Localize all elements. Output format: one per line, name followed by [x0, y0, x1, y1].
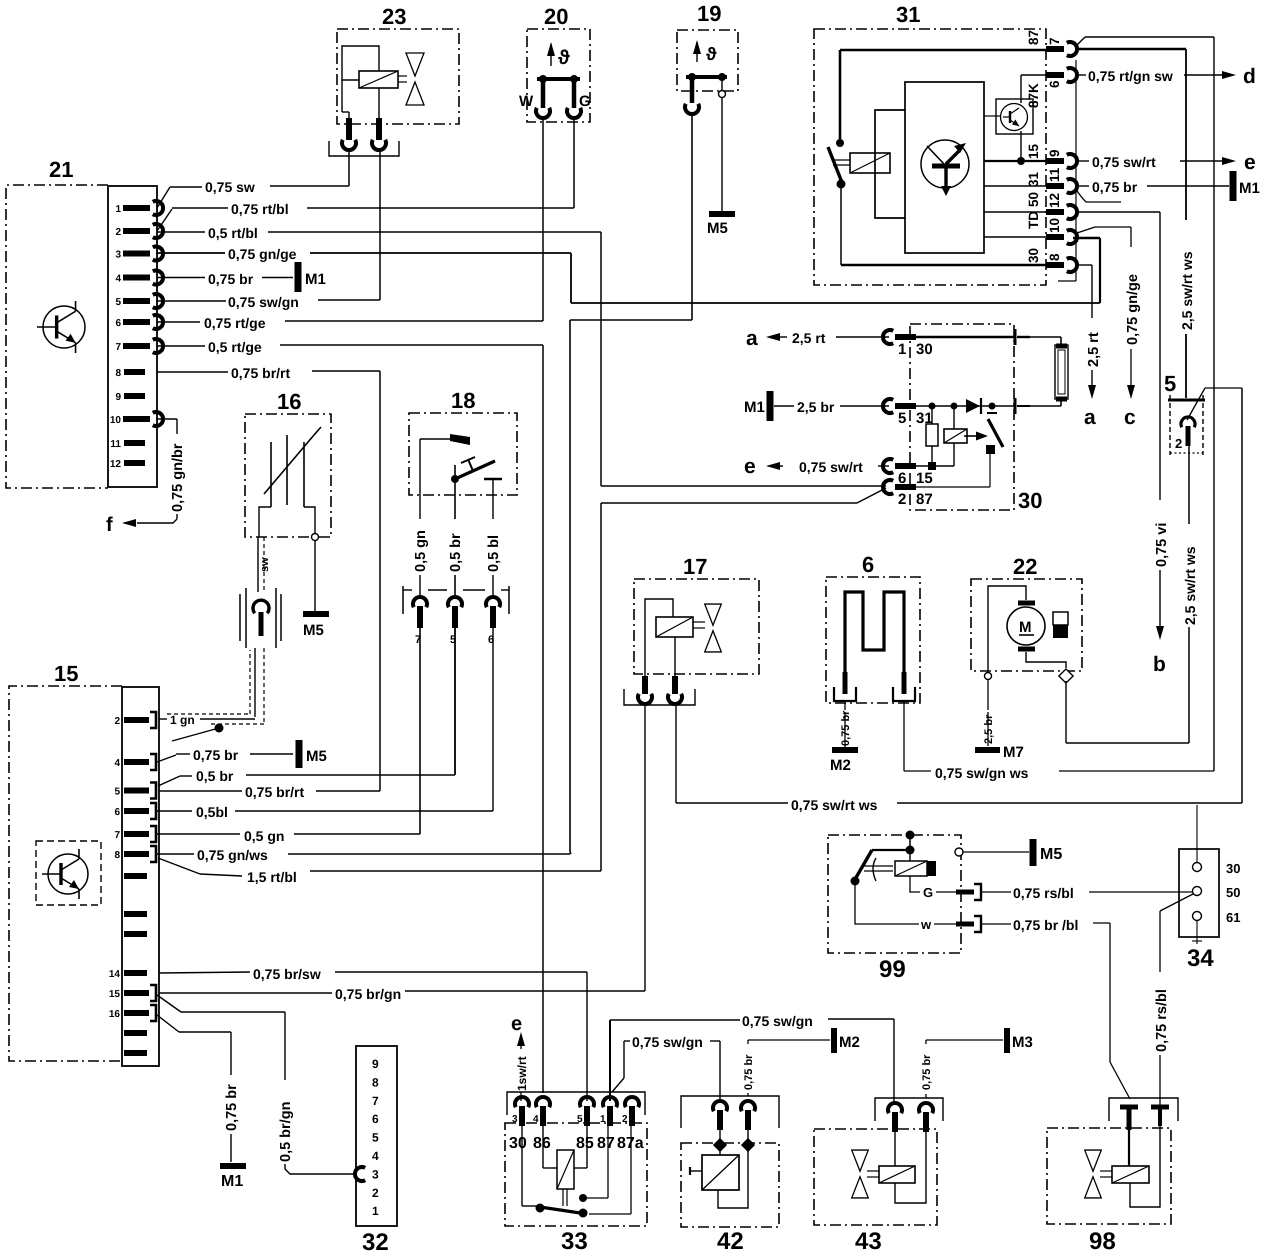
ignition starter switch 31 box: [814, 2, 1046, 285]
pin 2 of 15: [114, 712, 156, 728]
svg-text:b: b: [1153, 653, 1166, 676]
pin 8 terminal 30 of 31: [1026, 248, 1077, 272]
svg-text:1,5 rt/bl: 1,5 rt/bl: [247, 869, 297, 885]
inline connector below 16: [240, 588, 281, 648]
wire 0,75 vi pin12-31 to arrow b: [1078, 212, 1170, 626]
svg-text:M3: M3: [1012, 1034, 1033, 1051]
pin 2 terminal 87 of relay 30: [883, 480, 933, 508]
svg-text:31: 31: [1026, 171, 1041, 187]
pin 9 of 21: [115, 392, 145, 403]
pins of 17: [624, 676, 695, 705]
svg-text:M: M: [1019, 619, 1032, 636]
pin 1 terminal 87 of 33: [600, 1097, 617, 1126]
wire 99 to ground M5: [963, 851, 1029, 853]
relay coil 17: [656, 617, 693, 637]
svg-text:ϑ: ϑ: [558, 47, 570, 69]
wire 42 left pin to valve: [713, 1130, 727, 1155]
fuse element right of relay 30: [1030, 337, 1068, 406]
svg-text:2,5 br: 2,5 br: [983, 714, 995, 744]
wire 0,75 br/gn pin15-15 to 17 left pin: [159, 703, 645, 1002]
transistor symbol in 21: [37, 301, 85, 353]
svg-text:M1: M1: [744, 399, 765, 416]
valve symbol 42: [690, 1155, 739, 1190]
terminal 1 of 32: [372, 1204, 379, 1218]
svg-text:87: 87: [597, 1135, 615, 1152]
svg-text:12: 12: [110, 459, 122, 470]
wire 0,5 rt/bl pin2-21 to relay30 pin 87 and branch: [157, 225, 886, 486]
motor 43: [879, 1132, 915, 1183]
shielded cable 1 gn from connector to pin2 of 15: [159, 648, 264, 727]
terminal 8 of 32: [372, 1075, 379, 1089]
svg-text:e: e: [1244, 151, 1256, 174]
pin 7 of 21: [115, 339, 163, 353]
svg-text:0,5 gn: 0,5 gn: [413, 530, 429, 572]
svg-text:0,75 sw/gn: 0,75 sw/gn: [228, 294, 299, 310]
wire 31 internal 30 rail bottom: [841, 264, 1046, 266]
connector bracket of 43: [875, 1098, 943, 1121]
svg-text:11: 11: [1047, 167, 1062, 182]
pin 4 of 15: [114, 754, 156, 770]
ground M1 at pin4-21: [298, 262, 326, 292]
pin 12 of 21: [110, 459, 145, 470]
fan symbol 17: [693, 604, 721, 652]
pins of 43: [888, 1103, 933, 1132]
svg-text:5: 5: [372, 1131, 379, 1145]
wire 0,75 br pin4-21 to ground M1: [157, 271, 293, 287]
transistor in 15: [36, 841, 101, 905]
pin 2 terminal 87a of 33: [622, 1097, 639, 1126]
wire 0,75 br/rt pin8-21 to pin5 of 15: [157, 365, 380, 800]
svg-text:M5: M5: [707, 220, 728, 237]
pin nc of 15: [124, 931, 147, 937]
suppressor 22: [1053, 612, 1068, 638]
wire 31 internal 87 rail top: [840, 50, 1046, 139]
wire 0,75 br/bl 99 w to 98 left pin: [981, 917, 1130, 1099]
relay 30 switch: [916, 413, 1003, 487]
wire 43 right pin loop: [895, 1132, 926, 1203]
inner unit rectangle 31: [905, 82, 984, 253]
svg-text:a: a: [746, 327, 758, 350]
ground M1 bottom left: [220, 1166, 246, 1190]
svg-text:43: 43: [855, 1228, 882, 1254]
svg-text:5: 5: [114, 787, 120, 798]
svg-text:0,75 br: 0,75 br: [208, 271, 254, 287]
svg-text:0,5 gn: 0,5 gn: [244, 828, 284, 844]
svg-text:15: 15: [1026, 143, 1041, 159]
svg-text:5: 5: [1164, 371, 1176, 396]
small transistor box 31: [984, 99, 1033, 134]
terminal 9 of 32: [372, 1057, 379, 1071]
svg-text:0,5 br: 0,5 br: [448, 533, 464, 572]
switch 18 box: [409, 388, 517, 495]
svg-text:0,75 rt/ge: 0,75 rt/ge: [204, 315, 266, 331]
starter connector 34 box: [1179, 849, 1219, 972]
svg-text:8: 8: [114, 850, 120, 861]
arrow a down: [1084, 385, 1096, 429]
pin strip 15: [122, 687, 159, 1066]
svg-text:30: 30: [1026, 248, 1041, 263]
svg-text:87: 87: [1026, 30, 1041, 45]
wire 0,75 rt/ge pin6-21 to W of 20: [157, 118, 543, 331]
motor 22 box: [971, 554, 1082, 671]
arrow d: [1222, 65, 1256, 88]
wire 0,75 sw/rt ws 17 right pin to box5 contact: [676, 703, 1242, 813]
wire 31 internal row 15: [984, 160, 1046, 162]
svg-text:4: 4: [533, 1114, 539, 1125]
wire 0,75 gn/ge pin3-21 to TD pin10-31: [157, 238, 1100, 303]
fan symbol 23: [398, 53, 424, 105]
wire 0,75 sw/gn ws 6 right pin to pin7-31 thin wire: [904, 701, 1214, 781]
pin 15 of 15: [109, 985, 156, 1001]
svg-text:8: 8: [115, 368, 121, 379]
wire 0,75 br 6 left pin to ground M2: [840, 701, 852, 747]
svg-text:0,5 br: 0,5 br: [196, 768, 234, 784]
svg-text:f: f: [106, 514, 113, 536]
wire 31 internal row 50: [984, 211, 1046, 213]
svg-text:7: 7: [1047, 37, 1062, 45]
wire e 1 sw/rt into pin3 of 33: [511, 1013, 529, 1101]
ground M1 right of 31: [1233, 171, 1260, 201]
pins of 6: [834, 672, 915, 701]
terminal 5 of 32: [372, 1131, 379, 1145]
svg-text:23: 23: [382, 4, 406, 29]
svg-text:0,75 br: 0,75 br: [224, 1084, 240, 1131]
wire 0,5 gn connector18 pin7 to pin7-15: [157, 628, 420, 844]
svg-text:16: 16: [277, 389, 301, 414]
wire w terminal 99: [855, 881, 981, 932]
svg-text:11: 11: [110, 439, 121, 450]
svg-text:0,75 rs/bl: 0,75 rs/bl: [1154, 989, 1170, 1052]
svg-text:30: 30: [1226, 861, 1240, 876]
arrow b: [1153, 626, 1166, 676]
pin 1 of 21: [115, 201, 163, 215]
svg-text:15: 15: [109, 989, 121, 1000]
wire 2,5 br 22 to ground M7: [983, 680, 995, 746]
pin 7 terminal 87 of 31: [1026, 30, 1077, 56]
svg-text:2,5 rt: 2,5 rt: [792, 330, 826, 346]
pin 11 terminal 31 of 31: [1026, 167, 1077, 193]
relay 33 switch: [522, 1126, 588, 1218]
pin 8 of 21: [115, 368, 145, 379]
pin nc of 15: [124, 911, 147, 917]
pressure symbol 99: [864, 858, 893, 881]
wire 2,5 rt pin8-31 to arrow a: [1078, 265, 1102, 385]
relay 17 box: [634, 554, 759, 674]
svg-text:ϑ: ϑ: [706, 44, 717, 64]
pin 10 of 21: [110, 412, 163, 426]
svg-text:0,75 br/sw: 0,75 br/sw: [253, 966, 321, 982]
svg-text:G: G: [923, 885, 933, 900]
symbol arrow and theta 20: [547, 42, 570, 69]
svg-text:30: 30: [916, 341, 933, 358]
connector pins under 23: [329, 118, 399, 156]
relay 23 auxiliary fan relay box: [337, 4, 459, 124]
svg-text:sw: sw: [259, 557, 271, 572]
wire 0,75 br 43 right pin to ground M3: [921, 1040, 1003, 1098]
svg-text:99: 99: [879, 956, 906, 983]
svg-text:0,75 gn/ge: 0,75 gn/ge: [1125, 274, 1141, 345]
ground M5 below 16: [303, 614, 329, 639]
fan symbol 43: [852, 1150, 879, 1198]
armature link 31: [833, 160, 850, 165]
svg-text:2,5 sw/rt ws: 2,5 sw/rt ws: [1179, 251, 1195, 330]
wire 0,5 rt/ge pin7-21 to pin4 of relay 33: [157, 339, 543, 1093]
terminal 61 of 34: [1192, 910, 1240, 944]
pin 6 terminal 87K of 31: [1026, 68, 1077, 108]
svg-text:30: 30: [1018, 488, 1042, 513]
svg-text:22: 22: [1013, 554, 1037, 579]
svg-text:W: W: [519, 93, 534, 110]
svg-text:0,75 sw/rt: 0,75 sw/rt: [799, 459, 863, 475]
terminal diamond 22 right: [1059, 669, 1073, 683]
terminal labels of 33: [509, 1135, 644, 1152]
svg-text:0,75 gn/br: 0,75 gn/br: [170, 443, 186, 512]
svg-text:0,75 sw/gn: 0,75 sw/gn: [632, 1034, 703, 1050]
arrow c: [1124, 385, 1136, 429]
wire 0,75 sw/rt pin9-31 to arrow e: [1078, 154, 1222, 170]
relay 30 box: [910, 324, 1042, 513]
svg-text:M1: M1: [1239, 180, 1260, 197]
svg-text:50: 50: [1026, 192, 1041, 207]
svg-text:2: 2: [898, 491, 906, 508]
pin 9 terminal 15 of 31: [1026, 143, 1077, 168]
shielded cable sw from 16 to connector: [258, 537, 271, 592]
svg-text:18: 18: [451, 388, 475, 413]
wire 0,75 br 42 right pin to ground M2: [743, 1040, 830, 1096]
svg-text:0,5bl: 0,5bl: [196, 804, 228, 820]
svg-text:2: 2: [115, 227, 121, 238]
wire 0,75 gn/br pin10-21 to arrow f: [137, 419, 186, 523]
wire 0,75 sw/gn 33 pin87 to 43: [610, 1013, 894, 1101]
wire 0,75 sw/gn 33 pin87 to 42: [612, 1034, 720, 1101]
terminal 4 of 32: [372, 1149, 379, 1163]
svg-text:0,75 br: 0,75 br: [1092, 179, 1138, 195]
svg-text:30: 30: [509, 1135, 527, 1152]
arrow f: [106, 514, 136, 536]
svg-text:61: 61: [1226, 910, 1240, 925]
pin nc of 15: [124, 873, 147, 879]
connector bracket of 42: [681, 1096, 779, 1128]
pin 4 terminal 86 of 33: [533, 1097, 550, 1126]
svg-text:1: 1: [898, 341, 906, 358]
wire e 0,75 sw/rt to relay30 pin 15: [744, 455, 889, 478]
relay coil 31: [850, 153, 890, 173]
svg-text:2,5 br: 2,5 br: [797, 399, 835, 415]
fan symbol 98: [1085, 1150, 1112, 1198]
svg-text:M5: M5: [303, 622, 324, 639]
shield ground junction: [172, 724, 224, 742]
ground M2 below 6: [830, 750, 858, 774]
pin 2 of box 5: [1175, 417, 1195, 451]
pin 3 terminal 30 of 33: [512, 1097, 529, 1126]
wire 22 right terminal down: [1065, 681, 1067, 743]
svg-text:0,75 br: 0,75 br: [921, 1054, 933, 1090]
wire 0,75 rs/bl 99 G to pin50 of 34: [981, 885, 1193, 901]
svg-text:1sw/rt: 1sw/rt: [515, 1056, 529, 1091]
svg-text:0,75 sw: 0,75 sw: [205, 179, 255, 195]
wire 0,75 sw from 23 to pin1 of 21: [157, 149, 349, 208]
svg-text:17: 17: [683, 554, 707, 579]
svg-text:1 gn: 1 gn: [170, 713, 195, 727]
connector strip 32: [356, 1046, 397, 1254]
pin 5 of 21: [115, 294, 163, 308]
svg-text:9: 9: [372, 1057, 379, 1071]
pin 14 of 15: [109, 969, 147, 980]
control unit 21 box: [6, 157, 108, 488]
thermo switch 20: [527, 4, 590, 122]
relay 33 contact 87 wire: [579, 1126, 608, 1202]
wire 0,75 br/sw pin14-15 to pin5 of 33: [159, 966, 587, 1101]
wire 22 motor plus from terminal: [988, 586, 1026, 672]
pressure switch 99 box: [828, 835, 961, 983]
wire 0,5 bl connector18 pin6 to pin6-15: [157, 628, 493, 820]
pin 5 terminal 31 of relay 30: [883, 399, 933, 427]
wire 16 to ground M5: [314, 541, 316, 611]
relay 33 armature link: [563, 1189, 567, 1206]
terminal 30 of 34: [1193, 805, 1241, 876]
svg-text:3: 3: [115, 250, 121, 261]
wire a 2,5 rt to relay30 pin 30: [746, 327, 889, 350]
wire 31 internal 87K from pin6 to small transistor: [1017, 75, 1046, 165]
svg-text:c: c: [1124, 406, 1136, 429]
svg-text:50: 50: [1226, 885, 1240, 900]
pins of 42: [713, 1101, 755, 1130]
svg-text:9: 9: [1047, 149, 1062, 157]
heater element 6 box: [826, 552, 920, 703]
svg-text:TD: TD: [1026, 211, 1041, 229]
terminal 3 of 32: [372, 1167, 379, 1181]
svg-text:0,75 sw/gn ws: 0,75 sw/gn ws: [935, 765, 1029, 781]
svg-text:M5: M5: [306, 748, 327, 765]
terminal 7 of 32: [372, 1094, 379, 1108]
auxiliary fan 43 box: [814, 1129, 937, 1254]
svg-text:0,75 sw/gn: 0,75 sw/gn: [742, 1013, 813, 1029]
connector bracket of 33: [507, 1092, 645, 1115]
relay 30 diode: [966, 398, 981, 414]
svg-text:2: 2: [372, 1186, 379, 1200]
svg-text:7: 7: [372, 1094, 379, 1108]
ground M3 right of 43: [1007, 1028, 1033, 1053]
solenoid valve 42 box: [681, 1143, 779, 1254]
terminal 6 of 32: [372, 1112, 379, 1126]
relay 30 internal rail 31: [916, 403, 1014, 410]
svg-text:M7: M7: [1003, 744, 1024, 761]
svg-text:15: 15: [916, 470, 933, 487]
pin nc of 15: [124, 1050, 147, 1056]
svg-text:w: w: [920, 917, 932, 932]
wire 0,75 gn/ws net from 19 left pin down to pin8 of 15: [157, 114, 692, 863]
svg-text:0,75 sw/rt: 0,75 sw/rt: [1092, 154, 1156, 170]
svg-text:1: 1: [600, 1114, 606, 1125]
pin 8 of 15: [114, 846, 156, 862]
pin 10 terminal TD of 31: [1026, 211, 1077, 244]
svg-text:8: 8: [1047, 253, 1062, 261]
svg-text:2: 2: [114, 716, 120, 727]
svg-text:0,5 rt/ge: 0,5 rt/ge: [208, 339, 262, 355]
svg-text:6: 6: [115, 318, 121, 329]
motor 98: [1112, 1130, 1149, 1183]
auxiliary fan 98 box: [1047, 1128, 1171, 1254]
left bracket of inner unit 31: [875, 110, 905, 218]
svg-text:G: G: [579, 93, 591, 110]
switch contacts 19: [685, 73, 727, 114]
relay 30 internal rail 15: [916, 465, 954, 467]
ignition switch lever 31: [828, 139, 846, 189]
svg-text:e: e: [511, 1013, 522, 1035]
relay coil 23: [359, 71, 398, 88]
pin 11 of 21: [110, 439, 145, 450]
pin 16 of 15: [109, 1005, 156, 1021]
switch symbol 18: [420, 434, 502, 495]
wire from 19 right pin to ground M5: [721, 98, 723, 212]
ground M5 right of 99: [1033, 839, 1062, 866]
svg-text:10: 10: [1047, 218, 1062, 233]
relay coil 33: [543, 1126, 587, 1189]
svg-text:4: 4: [115, 274, 121, 285]
pin 4 of 21: [115, 271, 163, 285]
svg-text:31: 31: [896, 2, 920, 27]
wire 31 internal row 31: [984, 185, 1046, 187]
svg-text:7: 7: [114, 830, 120, 841]
wire thin from pin7-31 to 0,75 sw/gn ws rail: [1077, 37, 1214, 771]
pin 1 terminal 30 of relay 30: [883, 330, 933, 358]
svg-text:0,75 rs/bl: 0,75 rs/bl: [1013, 885, 1074, 901]
relay 30 resistor: [926, 406, 938, 470]
svg-text:6: 6: [114, 807, 120, 818]
svg-text:1: 1: [372, 1204, 379, 1218]
wires internal 17: [645, 599, 675, 676]
wire 0,5 br/gn pin15-15 to pin3 of 32: [157, 995, 355, 1174]
heating element 6: [845, 592, 904, 675]
wire box5 top contact to 0,75 sw/rt ws rail: [1241, 388, 1243, 803]
pins of 98: [1120, 1107, 1169, 1130]
relay 33 box: [505, 1123, 647, 1254]
svg-text:0,75 gn/ge: 0,75 gn/ge: [228, 246, 297, 262]
terminal circle 99 top right: [955, 848, 963, 856]
pin 6 terminal 15 of relay 30: [883, 459, 933, 487]
svg-text:10: 10: [110, 415, 122, 426]
svg-text:20: 20: [544, 4, 568, 29]
svg-text:5: 5: [115, 297, 121, 308]
wire 22 motor minus to terminal: [1026, 652, 1066, 668]
symbol arrow and theta 19: [693, 40, 717, 64]
ground M5 below 19: [707, 214, 735, 237]
svg-text:M2: M2: [839, 1034, 860, 1051]
ground M2 right of 42: [834, 1028, 860, 1053]
svg-text:42: 42: [717, 1228, 744, 1254]
switch contacts 20: [519, 75, 591, 118]
svg-text:d: d: [1243, 65, 1256, 88]
svg-text:2,5 sw/rt ws: 2,5 sw/rt ws: [1182, 546, 1198, 625]
wire 42 right pin down: [718, 1130, 755, 1208]
arrow e right: [1222, 151, 1256, 174]
temperature sensor 16 box: [245, 389, 331, 537]
pin 12 terminal 50 of 31: [1026, 192, 1077, 219]
svg-text:12: 12: [1047, 193, 1062, 208]
wire 0,75 br pin4-15 to ground M5: [157, 747, 293, 763]
motor symbol 22: [1007, 603, 1045, 649]
wire 98 right pin loop: [1130, 1126, 1160, 1207]
svg-text:3: 3: [372, 1167, 379, 1181]
svg-text:a: a: [1084, 406, 1096, 429]
wires 18 down to connector: [413, 495, 502, 599]
svg-text:0,75 br: 0,75 br: [840, 710, 852, 746]
wire 0,75 rt/gn sw pin6-31 to arrow d: [1078, 68, 1222, 84]
svg-text:86: 86: [533, 1135, 551, 1152]
relay 30 right contact 30: [1015, 329, 1030, 345]
wire thick 87 pin7-31 to fuse 5 (2,5 sw/rt ws): [1078, 49, 1195, 398]
terminal circle 22 left: [985, 673, 992, 680]
